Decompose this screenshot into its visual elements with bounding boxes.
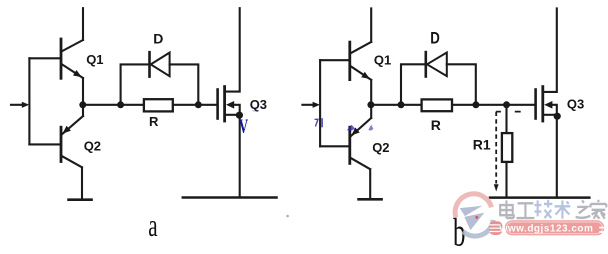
svg-text:www.dgjs123.com: www.dgjs123.com xyxy=(499,223,594,234)
svg-text:a: a xyxy=(148,208,157,243)
svg-text:V: V xyxy=(239,115,248,138)
svg-text:D: D xyxy=(430,29,440,48)
svg-text:R1: R1 xyxy=(473,137,491,153)
svg-text:Q3: Q3 xyxy=(250,97,267,112)
svg-text:Q3: Q3 xyxy=(567,97,584,112)
svg-text:D: D xyxy=(153,31,163,47)
svg-text:Q2: Q2 xyxy=(84,139,101,154)
svg-text:Q1: Q1 xyxy=(374,53,391,68)
svg-text:Q1: Q1 xyxy=(86,52,103,67)
svg-text:Q2: Q2 xyxy=(372,140,389,155)
svg-text:R: R xyxy=(431,117,441,133)
svg-text:R: R xyxy=(149,114,159,129)
